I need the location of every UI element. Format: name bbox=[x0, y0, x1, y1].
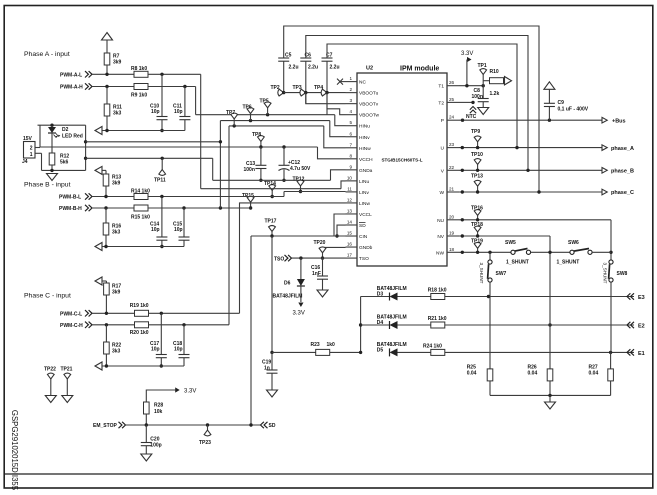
wire PWM-B-L extension bbox=[148, 196, 284, 198]
svg-text:R18 1k0: R18 1k0 bbox=[428, 288, 447, 294]
junction TP16 bbox=[476, 218, 479, 221]
wire flag to R13 bbox=[102, 169, 106, 171]
svg-text:9: 9 bbox=[349, 164, 352, 169]
svg-text:10p: 10p bbox=[174, 109, 183, 115]
svg-text:E2: E2 bbox=[638, 324, 645, 330]
wire bus B to pin 6 bbox=[330, 121, 346, 137]
junction R11 bottom bbox=[105, 129, 108, 132]
junction R28/EM_STOP bbox=[145, 423, 148, 426]
input chevron PWM-A-H bbox=[85, 83, 92, 89]
svg-text:10: 10 bbox=[347, 175, 353, 180]
svg-text:SW8: SW8 bbox=[617, 271, 628, 277]
svg-text:3_SHUNT: 3_SHUNT bbox=[479, 263, 484, 284]
supply flag phase C bbox=[95, 277, 102, 285]
wire 15V riser bbox=[39, 125, 41, 147]
wire TP10 stem bbox=[477, 165, 479, 171]
resistor R24 bbox=[431, 349, 445, 355]
pin 15 CIN bbox=[346, 235, 358, 237]
ground below TP21 bbox=[62, 396, 73, 403]
junction C18 top bbox=[182, 323, 185, 326]
wire PWM-C-H to corner bbox=[149, 324, 230, 326]
svg-text:14: 14 bbox=[347, 219, 353, 224]
wire C10 top bbox=[161, 74, 163, 116]
wire VBOOTw line bbox=[327, 93, 346, 115]
wire PWM-C-L bbox=[92, 312, 134, 314]
svg-text:5: 5 bbox=[349, 120, 352, 125]
junction R12 ground bbox=[50, 169, 53, 172]
svg-text:TP14: TP14 bbox=[264, 181, 276, 187]
pin 2 VBOOTu bbox=[346, 92, 358, 94]
svg-text:NV: NV bbox=[437, 234, 444, 240]
wire TSO line bbox=[292, 257, 346, 259]
wire R11 top bbox=[106, 87, 108, 105]
svg-text:P: P bbox=[441, 118, 444, 124]
pin 18 NW bbox=[447, 251, 459, 253]
wire TP14 stem bbox=[271, 191, 273, 197]
wire PWM-B-L riser to LINv bbox=[283, 192, 285, 197]
resistor R19 bbox=[135, 310, 149, 316]
svg-text:TP22: TP22 bbox=[44, 367, 56, 373]
junction C12 top bbox=[282, 145, 285, 148]
svg-text:TP20: TP20 bbox=[314, 240, 326, 246]
junction bootstrap loop/phase_A bbox=[515, 146, 518, 149]
capacitor C17 bbox=[156, 355, 167, 358]
svg-text:PWM-B-H: PWM-B-H bbox=[59, 206, 82, 212]
wire left riser x85 bbox=[85, 125, 87, 170]
wire HIN bus C bbox=[229, 125, 324, 127]
svg-text:100n: 100n bbox=[472, 94, 483, 100]
svg-text:D3: D3 bbox=[377, 291, 384, 297]
svg-text:25: 25 bbox=[449, 97, 455, 102]
svg-text:PWM-C-L: PWM-C-L bbox=[60, 311, 82, 317]
svg-text:1.2k: 1.2k bbox=[490, 91, 500, 97]
svg-text:STGIB15CH60TS-L: STGIB15CH60TS-L bbox=[381, 158, 422, 163]
svg-text:10p: 10p bbox=[151, 227, 160, 233]
wire VBOOTu line bbox=[284, 92, 346, 94]
svg-text:3k3: 3k3 bbox=[113, 111, 122, 117]
ground flag phase B bbox=[95, 243, 102, 251]
junction LED anode bbox=[50, 124, 53, 127]
wire bus A to pin 5 bbox=[335, 115, 346, 126]
svg-text:R24 1k0: R24 1k0 bbox=[423, 344, 442, 350]
junction T2/NTC bbox=[471, 101, 474, 104]
svg-text:U2: U2 bbox=[366, 66, 373, 72]
resistor R20 bbox=[135, 322, 149, 328]
capacitor C9 bbox=[544, 103, 555, 106]
svg-text:8: 8 bbox=[349, 153, 352, 158]
wire LED top rail bbox=[38, 124, 86, 126]
svg-text:12: 12 bbox=[347, 197, 353, 202]
ground flag phase C bbox=[95, 362, 102, 370]
wire NU riser to SW8 bbox=[610, 220, 612, 260]
capacitor C12 (polarized) bbox=[279, 165, 290, 170]
svg-text:HINv: HINv bbox=[359, 135, 370, 141]
junction C9/P line bbox=[548, 119, 551, 122]
wire phase_A line bbox=[459, 147, 602, 149]
wire PWM-A-L to corner bbox=[148, 73, 201, 75]
wire phase B ground rail bbox=[102, 246, 184, 248]
svg-text:1n: 1n bbox=[264, 366, 270, 372]
junction TP10 bbox=[476, 169, 479, 172]
wire GNDb line bbox=[323, 246, 346, 248]
test point TP5 bbox=[264, 102, 271, 108]
wire TP13 stem bbox=[477, 186, 479, 192]
svg-text:PWM-C-H: PWM-C-H bbox=[60, 323, 83, 329]
svg-text:100p: 100p bbox=[150, 443, 161, 449]
wire PWM-A-H bbox=[92, 86, 134, 88]
wire TP1 stem bbox=[482, 75, 484, 86]
wire C12 bottom bbox=[283, 170, 285, 181]
svg-text:3k3: 3k3 bbox=[112, 230, 121, 236]
wire HIN bus A bbox=[196, 114, 335, 116]
svg-text:3k9: 3k9 bbox=[112, 290, 121, 296]
chevron E2 bbox=[627, 322, 634, 328]
junction on P line bbox=[461, 119, 464, 122]
wire TP21 stem bbox=[66, 379, 68, 396]
test point TP4 bbox=[321, 89, 327, 96]
wire PWM-A-L bbox=[92, 73, 134, 75]
pin 1 NC bbox=[346, 81, 358, 83]
chevron SD bbox=[261, 422, 268, 428]
svg-text:NW: NW bbox=[436, 250, 444, 256]
svg-text:SD: SD bbox=[269, 423, 276, 429]
svg-text:GSPG29102015DII355: GSPG29102015DII355 bbox=[10, 410, 19, 491]
wire PWM-C-H bbox=[92, 324, 134, 326]
diode D3 bbox=[390, 293, 398, 301]
svg-text:16: 16 bbox=[347, 242, 353, 247]
svg-text:23: 23 bbox=[449, 142, 455, 147]
svg-text:TSO: TSO bbox=[359, 256, 369, 262]
wire R7 bottom to PWM-A-L bbox=[106, 65, 108, 74]
junction C12/GNDa rail bbox=[282, 179, 285, 182]
pin 13 VCCL bbox=[346, 213, 358, 215]
svg-text:NC: NC bbox=[359, 80, 366, 86]
svg-text:1_SHUNT: 1_SHUNT bbox=[506, 260, 529, 266]
resistor R28 bbox=[144, 402, 150, 414]
pin 21 W bbox=[447, 191, 459, 193]
svg-text:C9: C9 bbox=[558, 100, 565, 106]
svg-text:10p: 10p bbox=[174, 347, 183, 353]
wire C16 top bbox=[322, 258, 324, 276]
wire C7 bottom bbox=[326, 61, 328, 114]
wire TP17 stem bbox=[271, 231, 273, 236]
wire GNDa rail to pin 9 bbox=[331, 170, 346, 181]
wire corner to GNDa rail bbox=[212, 158, 214, 180]
svg-text:LINv: LINv bbox=[359, 190, 369, 196]
junction rail141/riser x220 bbox=[219, 140, 222, 143]
input chevron PWM-B-L bbox=[85, 193, 92, 199]
no-connect cross pin 1 bbox=[337, 79, 343, 85]
resistor R23 bbox=[316, 349, 330, 355]
junction C13/GNDa rail bbox=[259, 179, 262, 182]
wire R13 bottom bbox=[105, 186, 107, 197]
junction TP1/C8 bbox=[482, 84, 485, 87]
wire TP15 stem bbox=[250, 202, 252, 208]
junction R27/E1 bbox=[609, 351, 612, 354]
svg-text:EM_STOP: EM_STOP bbox=[93, 423, 117, 429]
op-amp U2 IPM module box bbox=[357, 73, 447, 266]
svg-text:D5: D5 bbox=[377, 347, 384, 353]
junction TP19 bbox=[476, 251, 479, 254]
ground below TP22 bbox=[45, 396, 56, 403]
net arrow phase_C bbox=[602, 189, 607, 195]
junction 3.3V riser/T1 bbox=[465, 84, 468, 87]
svg-text:TP10: TP10 bbox=[471, 152, 483, 158]
wire NW to SW7 bbox=[489, 252, 491, 260]
wire SD-CIN line bbox=[251, 235, 346, 237]
wire LINv line (pin11) bbox=[284, 191, 346, 193]
net arrow after R10 bbox=[505, 77, 512, 85]
junction TP9 bbox=[476, 146, 479, 149]
pin 26 T1 bbox=[447, 85, 459, 87]
svg-text:VCCH: VCCH bbox=[359, 157, 373, 163]
wire VBOOTv line bbox=[306, 93, 346, 104]
junction riser/141 rail bbox=[84, 140, 87, 143]
wire R27 bottom bbox=[610, 381, 612, 396]
input chevron EM_STOP bbox=[119, 422, 126, 428]
junction TP3/VBOOTv bbox=[304, 91, 307, 94]
wire R28 bottom bbox=[145, 414, 147, 425]
junction riser/158 rail bbox=[84, 157, 87, 160]
wire 3.3V to T1 bbox=[459, 60, 467, 86]
capacitor C15 bbox=[179, 237, 190, 240]
junction TP6 bbox=[249, 119, 252, 122]
junction TP12 bbox=[299, 190, 302, 193]
wire E2 line bbox=[445, 324, 634, 326]
capacitor C19 bbox=[267, 370, 278, 373]
junction TP5 bbox=[266, 113, 269, 116]
svg-text:3.3V: 3.3V bbox=[293, 311, 305, 317]
wire LINu step to pin 10 bbox=[341, 181, 346, 189]
arrow 3.3V R28 bbox=[175, 387, 180, 392]
svg-text:1_SHUNT: 1_SHUNT bbox=[557, 260, 580, 266]
ground below C19 bbox=[267, 390, 278, 397]
switch SW8 bbox=[609, 260, 614, 282]
svg-text:TP21: TP21 bbox=[61, 367, 73, 373]
wire PWM-C-L to pin 12 bbox=[240, 203, 346, 313]
svg-text:LINw: LINw bbox=[359, 201, 370, 207]
ground below C16 bbox=[317, 290, 328, 297]
wire TP22 stem bbox=[50, 379, 52, 396]
pin 16 GNDb bbox=[346, 246, 358, 248]
wire TP16 stem bbox=[477, 216, 479, 220]
wire TP8 stem bbox=[260, 142, 262, 148]
junction R22/PWM-C-H bbox=[105, 323, 108, 326]
svg-text:+Bus: +Bus bbox=[612, 119, 626, 125]
wire diode anode bus bbox=[360, 297, 362, 353]
wire flag to R17 bbox=[102, 280, 106, 282]
svg-text:D4: D4 bbox=[377, 320, 384, 326]
wire TP5 stem bbox=[267, 108, 269, 115]
wire TP12 stem bbox=[300, 186, 302, 192]
svg-text:3k3: 3k3 bbox=[112, 349, 121, 355]
svg-text:5k6: 5k6 bbox=[60, 160, 69, 166]
wire C13 top bbox=[260, 147, 262, 165]
junction TP15 bbox=[249, 206, 252, 209]
svg-text:0.04: 0.04 bbox=[467, 371, 477, 377]
svg-text:TP4: TP4 bbox=[314, 85, 323, 91]
wire C18 top bbox=[183, 325, 185, 355]
svg-text:3: 3 bbox=[349, 98, 352, 103]
capacitor C16 bbox=[317, 276, 328, 279]
svg-text:TP9: TP9 bbox=[471, 129, 480, 135]
wire phase A ground rail bbox=[102, 130, 185, 132]
wire E2 to R26 bbox=[549, 325, 551, 369]
pin 9 GNDa bbox=[346, 169, 358, 171]
wire SW5 to SW6 bbox=[530, 251, 570, 253]
junction on phase_C line bbox=[461, 190, 464, 193]
wire J4 pin2 bbox=[35, 147, 40, 149]
arrow 3.3V T1 bbox=[467, 57, 472, 62]
svg-text:SW7: SW7 bbox=[496, 271, 507, 277]
resistor R18 bbox=[431, 294, 445, 300]
test point TP17 bbox=[269, 226, 276, 232]
wire R16 bottom bbox=[105, 235, 107, 247]
svg-text:SW6: SW6 bbox=[568, 240, 579, 246]
resistor R14 bbox=[134, 194, 148, 200]
svg-text:19: 19 bbox=[449, 231, 455, 236]
svg-text:3.3V: 3.3V bbox=[184, 389, 196, 395]
wire C15 top bbox=[183, 208, 185, 237]
test point TP22 bbox=[47, 373, 54, 379]
capacitor C14 bbox=[156, 237, 167, 240]
junction on phase_A line bbox=[461, 146, 464, 149]
test point TP20 bbox=[319, 247, 326, 253]
junction bootstrap loop/phase_C bbox=[537, 190, 540, 193]
wire TP7 stem bbox=[233, 119, 235, 126]
wire C14 bottom bbox=[161, 240, 163, 246]
wire PWM-B-H bbox=[92, 207, 134, 209]
wire C13 bottom bbox=[260, 169, 262, 181]
svg-text:NTC: NTC bbox=[466, 114, 477, 120]
capacitor C7 bbox=[322, 58, 333, 61]
junction TP14 bbox=[271, 195, 274, 198]
junction D4 row bbox=[359, 323, 362, 326]
test point TP19 bbox=[474, 242, 481, 248]
wire R22 top bbox=[105, 325, 107, 342]
junction TP17/CIN bbox=[270, 234, 273, 237]
wire T1 line to TP1 bbox=[467, 85, 483, 87]
wire R17 bottom bbox=[105, 295, 107, 313]
wire D6 cathode bbox=[300, 286, 302, 302]
junction R17/PWM-C-L bbox=[105, 312, 108, 315]
wire T2 line bbox=[459, 101, 473, 103]
wire SW7 to E3 bbox=[489, 282, 491, 297]
NTC flag bbox=[470, 107, 476, 114]
svg-text:R23: R23 bbox=[311, 342, 320, 348]
ground below R12 bbox=[47, 174, 58, 181]
wire E1 line bbox=[445, 351, 634, 353]
junction R16 bottom bbox=[104, 245, 107, 248]
svg-text:3.3V: 3.3V bbox=[461, 51, 473, 57]
junction D6 bbox=[299, 256, 302, 259]
test point TP3 bbox=[300, 89, 306, 96]
junction SW7 top bbox=[488, 251, 491, 254]
svg-text:2.2u: 2.2u bbox=[289, 64, 299, 70]
svg-text:CIN: CIN bbox=[359, 234, 368, 240]
wire R23 left bbox=[272, 351, 316, 353]
svg-text:LINu: LINu bbox=[359, 179, 369, 185]
wire D4 row left bbox=[361, 324, 390, 326]
svg-text:3k9: 3k9 bbox=[113, 60, 122, 66]
svg-text:D2: D2 bbox=[62, 127, 69, 133]
test point TP15 bbox=[247, 196, 254, 202]
resistor R12 bbox=[49, 153, 55, 165]
svg-text:4.7u 50V: 4.7u 50V bbox=[290, 166, 311, 172]
svg-text:PWM-B-L: PWM-B-L bbox=[59, 195, 81, 201]
junction C14 top bbox=[160, 195, 163, 198]
svg-text:VBOOTw: VBOOTw bbox=[359, 113, 380, 119]
net arrow +Bus bbox=[602, 117, 607, 123]
svg-text:PWM-A-L: PWM-A-L bbox=[60, 72, 82, 78]
pin 5 HINu bbox=[346, 125, 358, 127]
wire C20 bottom bbox=[145, 446, 147, 454]
junction C17 top bbox=[160, 312, 163, 315]
pin 14 SD bbox=[346, 224, 358, 226]
wire TP6 stem bbox=[250, 114, 252, 121]
chevron E1 bbox=[627, 349, 634, 355]
test point TP7 bbox=[231, 113, 238, 119]
wire R7 top bbox=[106, 40, 108, 53]
svg-text:VCCL: VCCL bbox=[359, 212, 372, 218]
LED D2 bbox=[48, 127, 60, 138]
test point TP9 bbox=[474, 136, 481, 142]
wire TP23 stem bbox=[207, 425, 209, 430]
resistor R21 bbox=[431, 322, 445, 328]
svg-text:R28: R28 bbox=[154, 403, 163, 409]
wire PWM-C-L to corner bbox=[149, 312, 240, 314]
svg-text:13: 13 bbox=[347, 208, 353, 213]
wire bootstrap loop C5 to phase_C bbox=[284, 26, 539, 192]
switch SW7 bbox=[488, 260, 493, 282]
test point TP11 bbox=[159, 170, 166, 176]
wire P to +Bus bbox=[459, 119, 602, 121]
svg-text:10k: 10k bbox=[154, 409, 163, 415]
svg-text:TP5: TP5 bbox=[260, 99, 269, 105]
wire 15V return rail bbox=[42, 169, 86, 171]
svg-text:BAT48JFILM: BAT48JFILM bbox=[273, 294, 303, 300]
wire NV line bbox=[459, 235, 550, 237]
svg-text:4: 4 bbox=[349, 109, 352, 114]
wire NV riser to R26 bbox=[549, 236, 551, 325]
test point TP21 bbox=[64, 373, 71, 379]
svg-text:IPM module: IPM module bbox=[400, 66, 439, 73]
svg-text:VBOOTv: VBOOTv bbox=[359, 102, 379, 108]
junction SD column bbox=[249, 423, 252, 426]
svg-text:7: 7 bbox=[349, 142, 352, 147]
wire R26 bottom bbox=[549, 381, 551, 396]
test point TP14 bbox=[269, 185, 276, 191]
wire bootstrap loop C6 to phase_B bbox=[306, 36, 528, 171]
wire PWM-A-H to corner bbox=[148, 86, 196, 88]
wire R22 bottom bbox=[105, 354, 107, 366]
connector J4 bbox=[24, 142, 36, 159]
svg-text:R20 1k0: R20 1k0 bbox=[130, 330, 149, 336]
junction C16/TSO bbox=[321, 256, 324, 259]
pin 7 HINw bbox=[346, 147, 358, 149]
wire D3 row left bbox=[361, 296, 390, 298]
pin 22 V bbox=[447, 169, 459, 171]
wire phase_B line bbox=[459, 169, 602, 171]
pin 4 VBOOTw bbox=[346, 114, 358, 116]
svg-text:R21 1k0: R21 1k0 bbox=[428, 316, 447, 322]
svg-text:T2: T2 bbox=[438, 100, 444, 106]
wire TP9 stem bbox=[477, 142, 479, 148]
wire R16 top bbox=[105, 208, 107, 223]
wire R10 line bbox=[483, 80, 489, 82]
svg-text:1: 1 bbox=[30, 152, 33, 158]
wire D4 to R21 bbox=[398, 324, 431, 326]
